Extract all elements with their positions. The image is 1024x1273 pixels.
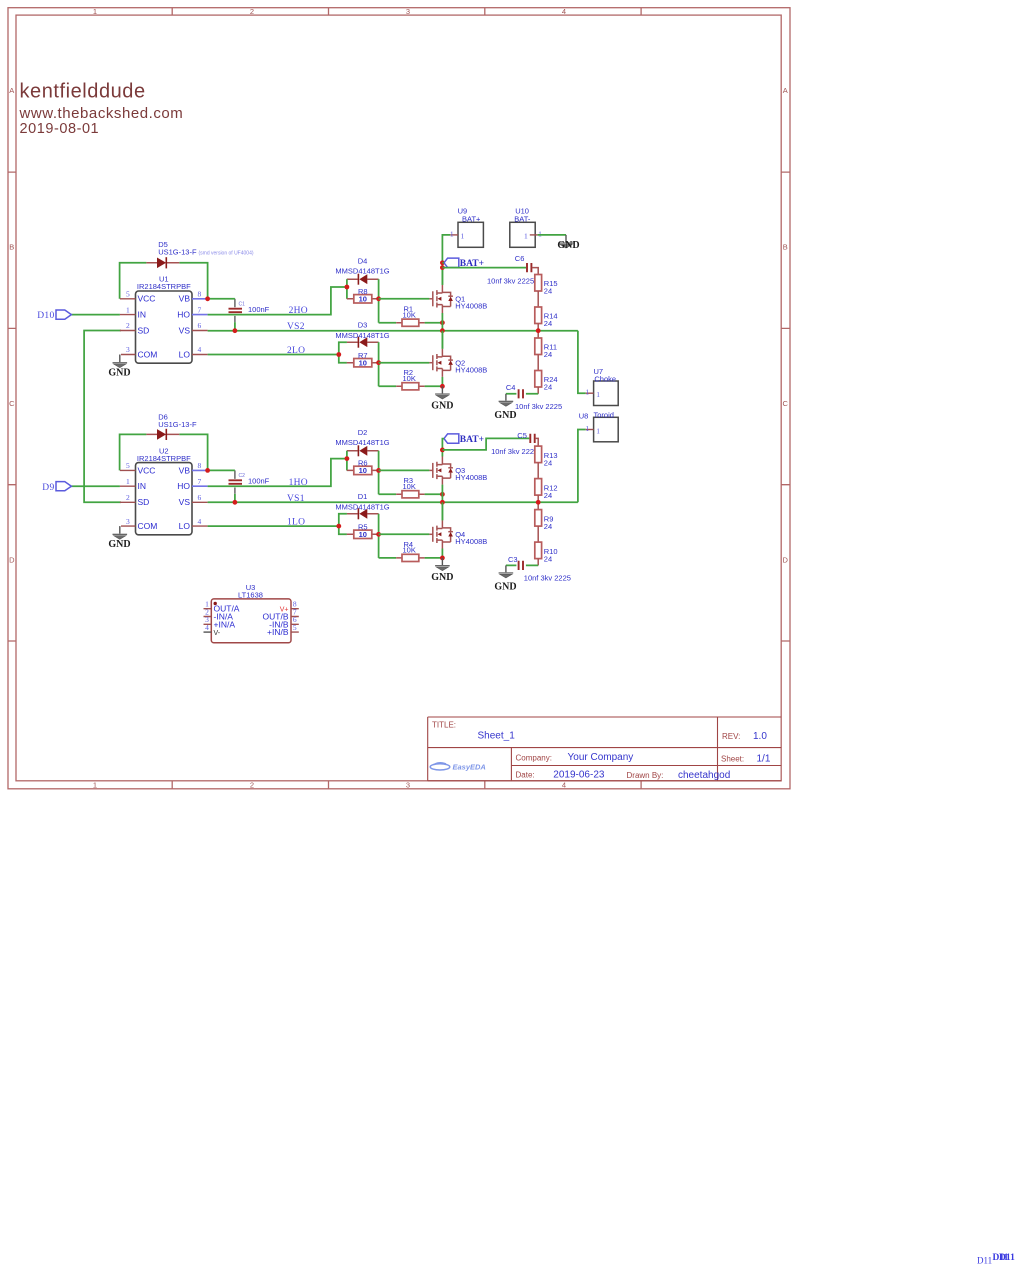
junction chain VS1 (536, 500, 541, 505)
junction R7 gate node (376, 360, 381, 365)
svg-text:10nf 3kv 2225: 10nf 3kv 2225 (487, 277, 534, 286)
net flag BAT+ lower (444, 434, 484, 445)
svg-text:Sheet:: Sheet: (721, 755, 744, 764)
svg-text:C4: C4 (506, 383, 516, 392)
svg-text:1: 1 (596, 390, 600, 399)
svg-text:MMSD4148T1G: MMSD4148T1G (335, 331, 389, 340)
svg-text:C: C (782, 399, 788, 408)
svg-text:2: 2 (250, 781, 254, 790)
svg-text:BAT+: BAT+ (462, 215, 481, 224)
svg-text:EasyEDA: EasyEDA (453, 763, 486, 772)
svg-text:HY4008B: HY4008B (455, 473, 487, 482)
wire Q2 drain (441, 331, 443, 349)
diode D4 MMSD4148T1G (335, 256, 389, 284)
resistor R7 10 (347, 351, 379, 368)
junction R2/source (440, 384, 445, 389)
wire Q3 source column (441, 485, 443, 521)
svg-text:VS1: VS1 (287, 494, 305, 504)
svg-text:MMSD4148T1G: MMSD4148T1G (335, 266, 389, 275)
capacitor C4 10nf 3kv 2225 (506, 383, 562, 411)
svg-text:LT1638: LT1638 (238, 590, 263, 599)
junction U2.VB (205, 468, 210, 473)
junction R1/source (440, 320, 445, 325)
svg-text:6: 6 (198, 321, 202, 330)
svg-text:5: 5 (126, 290, 130, 299)
svg-text:IN: IN (138, 481, 147, 491)
wire D4/R8 right link down to R1 (378, 279, 380, 323)
svg-text:US1G-13-F: US1G-13-F (158, 420, 197, 429)
svg-text:VB: VB (179, 294, 191, 304)
svg-text:D1: D1 (358, 492, 368, 501)
svg-text:+IN/B: +IN/B (267, 627, 289, 637)
wire net VS2 (208, 330, 578, 332)
EasyEDA logo (430, 763, 486, 772)
svg-text:8: 8 (198, 461, 202, 470)
resistor R9 24 (535, 510, 554, 531)
ground under Q4 (431, 558, 453, 583)
svg-text:4: 4 (562, 7, 566, 16)
wire VS1 to U8 (578, 430, 586, 503)
svg-text:GND: GND (431, 572, 453, 583)
svg-text:VCC: VCC (138, 294, 156, 304)
capacitor C3 10nf 3kv 2225 (506, 555, 571, 583)
svg-text:6: 6 (198, 493, 202, 502)
svg-text:C6: C6 (515, 254, 525, 263)
svg-text:IN: IN (138, 310, 147, 320)
svg-text:D: D (9, 556, 15, 565)
part U9 BAT+ terminal (450, 206, 484, 247)
wire D4/R8 left link (346, 279, 348, 299)
svg-text:A: A (783, 86, 788, 95)
lead R14-VS2 (537, 324, 539, 339)
svg-text:10nf 3kv 2225: 10nf 3kv 2225 (491, 447, 538, 456)
resistor R10 24 (535, 542, 558, 563)
junction R4/source (440, 556, 445, 561)
junction C2/VS1 (233, 500, 238, 505)
svg-text:1: 1 (596, 427, 600, 436)
svg-text:1: 1 (450, 229, 454, 238)
svg-text:1: 1 (538, 229, 542, 238)
wire U2 VCC bootstrap loop (120, 434, 208, 470)
svg-text:Company:: Company: (516, 753, 552, 762)
wire U1 VCC bootstrap loop (120, 263, 208, 299)
svg-text:VS: VS (179, 497, 191, 507)
wire net 1LO (208, 525, 339, 527)
ground at U1 COM (108, 355, 130, 379)
part U7 Choke (585, 367, 618, 405)
wire net 2HO (208, 287, 347, 315)
resistor R24 24 (535, 371, 558, 392)
ground under Q2 (431, 386, 453, 411)
svg-text:COM: COM (138, 521, 158, 531)
svg-text:Sheet_1: Sheet_1 (478, 731, 516, 742)
svg-text:VS: VS (179, 325, 191, 335)
lead R12-VS1 (537, 495, 539, 510)
junction 2HO at D4/R8 (345, 285, 350, 290)
wire gate Q2 (379, 362, 430, 364)
resistor R13 24 (535, 446, 558, 467)
svg-text:SD: SD (138, 497, 150, 507)
svg-text:1: 1 (585, 388, 589, 397)
svg-text:MMSD4148T1G: MMSD4148T1G (335, 503, 389, 512)
svg-text:D11: D11 (977, 1256, 992, 1266)
wire Q2 source to ground (441, 377, 443, 386)
svg-text:B: B (783, 243, 788, 252)
svg-text:2019-08-01: 2019-08-01 (20, 121, 100, 137)
sheet header text (19, 80, 184, 137)
svg-text:1: 1 (93, 781, 97, 790)
svg-text:24: 24 (544, 350, 552, 359)
wire net 2LO (208, 354, 339, 356)
capacitor C2 100nF (229, 470, 270, 502)
svg-text:(smd version of UF4004): (smd version of UF4004) (199, 250, 254, 256)
svg-text:4: 4 (198, 345, 202, 354)
junction chain VS2 (536, 328, 541, 333)
resistor R11 24 (535, 338, 557, 359)
svg-text:24: 24 (544, 319, 552, 328)
wire net 1HO (208, 459, 347, 487)
svg-text:IR2184STRPBF: IR2184STRPBF (137, 454, 191, 463)
capacitor C6 10nf 3kv 2225 (487, 254, 538, 286)
svg-text:BAT-: BAT- (514, 215, 531, 224)
svg-text:10K: 10K (403, 546, 416, 555)
wire D3/R7 right link down to R2 (378, 342, 380, 386)
svg-text:C: C (9, 399, 15, 408)
resistor R6 10 (347, 459, 379, 476)
junction R5 gate node (376, 532, 381, 537)
diode D2 MMSD4148T1G (335, 428, 389, 456)
junction BAT+ C6 branch (440, 265, 445, 270)
svg-text:5: 5 (293, 623, 297, 632)
wire D9 to U2.IN (71, 485, 120, 487)
lead R15-R14 (537, 291, 539, 307)
junction U1.VB (205, 296, 210, 301)
junction VS2 at Q column (440, 328, 445, 333)
svg-text:D3: D3 (358, 320, 368, 329)
IC U2 IR2184STRPBF (120, 446, 208, 535)
capacitor C5 10nf 3kv 2225 (491, 431, 538, 456)
svg-text:COM: COM (138, 349, 158, 359)
svg-text:D11: D11 (999, 1253, 1015, 1263)
wire BAT+ branch to C5 (442, 438, 529, 450)
svg-text:GND: GND (494, 410, 516, 421)
wire BAT+ to Q3 drain (442, 439, 444, 457)
lead R11-R24 (537, 355, 539, 371)
svg-text:Choke: Choke (594, 375, 616, 384)
svg-text:LO: LO (179, 349, 191, 359)
svg-text:3: 3 (126, 517, 130, 526)
svg-text:1/1: 1/1 (757, 754, 771, 765)
svg-text:MMSD4148T1G: MMSD4148T1G (335, 438, 389, 447)
transistor Q4 HY4008B (429, 520, 487, 548)
wire D2/R6 left link (346, 451, 348, 471)
svg-text:www.thebackshed.com: www.thebackshed.com (19, 105, 184, 122)
junction 1LO at D1/R5 (336, 524, 341, 529)
wire D10 to U1.IN (71, 314, 120, 316)
svg-text:10nf 3kv 2225: 10nf 3kv 2225 (524, 573, 571, 582)
ground at U2 COM (108, 526, 130, 550)
svg-text:C5: C5 (517, 431, 527, 440)
svg-text:1: 1 (524, 232, 528, 241)
resistor R4 10K (379, 540, 443, 562)
svg-text:GND: GND (557, 240, 579, 251)
junction C1/VS2 (233, 328, 238, 333)
part U8 Toroid (579, 410, 618, 441)
transistor Q3 HY4008B (429, 457, 487, 485)
svg-text:V-: V- (214, 630, 221, 637)
IC U1 IR2184STRPBF (120, 275, 208, 364)
svg-text:1: 1 (585, 424, 589, 433)
svg-text:IR2184STRPBF: IR2184STRPBF (137, 282, 191, 291)
resistor R15 24 (535, 275, 558, 296)
svg-text:B: B (9, 243, 14, 252)
svg-text:HO: HO (177, 310, 190, 320)
part U10 BAT- terminal (510, 206, 542, 247)
svg-text:1: 1 (461, 232, 465, 241)
svg-text:TITLE:: TITLE: (432, 720, 456, 729)
resistor R8 10 (347, 287, 379, 304)
svg-text:10: 10 (359, 466, 367, 475)
svg-text:US1G-13-F: US1G-13-F (158, 248, 197, 257)
wire net VS1 (208, 501, 578, 503)
wire VS2 to U7 (578, 331, 586, 394)
svg-text:100nF: 100nF (248, 476, 270, 485)
op-amp U3 LT1638 (204, 583, 299, 643)
svg-text:Your Company: Your Company (568, 752, 634, 763)
wire gate Q3 (379, 469, 430, 471)
svg-text:1HO: 1HO (289, 478, 308, 488)
svg-text:HY4008B: HY4008B (455, 537, 487, 546)
port D9 (42, 482, 71, 493)
wire Q1 source column (441, 313, 443, 349)
svg-text:D: D (782, 556, 788, 565)
junction R8 gate node (376, 296, 381, 301)
svg-text:VB: VB (179, 465, 191, 475)
svg-text:10K: 10K (403, 310, 416, 319)
resistor R5 10 (347, 523, 379, 540)
junction BAT+ flag (440, 260, 445, 265)
net flag BAT+ (444, 258, 484, 269)
diode D1 MMSD4148T1G (335, 492, 389, 519)
svg-text:GND: GND (108, 367, 130, 378)
svg-text:GND: GND (431, 401, 453, 412)
junction 2LO at D3/R7 (336, 352, 341, 357)
svg-text:D2: D2 (358, 428, 368, 437)
svg-text:1.0: 1.0 (753, 731, 767, 742)
svg-text:3: 3 (406, 781, 410, 790)
junction R6 gate node (376, 468, 381, 473)
wire D3/R7 left link (339, 342, 347, 363)
wire Q4 drain (441, 502, 443, 520)
svg-text:VCC: VCC (138, 465, 156, 475)
transistor Q2 HY4008B (429, 349, 487, 377)
svg-text:LO: LO (179, 521, 191, 531)
svg-text:4: 4 (205, 623, 209, 632)
svg-text:1: 1 (126, 305, 130, 314)
svg-text:BAT+: BAT+ (460, 435, 484, 445)
svg-text:Date:: Date: (516, 771, 535, 780)
svg-text:C2: C2 (239, 473, 246, 479)
svg-text:4: 4 (198, 517, 202, 526)
junction VS1 at Q column (440, 500, 445, 505)
svg-text:10: 10 (359, 530, 367, 539)
ground at C4 (494, 394, 516, 421)
wire BAT+ to C6 (442, 263, 526, 268)
port D10 (37, 310, 71, 321)
lead R13-R12 (537, 463, 539, 479)
svg-text:3: 3 (406, 7, 410, 16)
svg-text:D9: D9 (42, 483, 54, 493)
svg-text:5: 5 (126, 461, 130, 470)
svg-text:1: 1 (93, 7, 97, 16)
wire gate Q4 (379, 533, 430, 535)
junction R3/source (440, 492, 445, 497)
wire U10 to ground (538, 234, 566, 236)
svg-text:24: 24 (544, 491, 552, 500)
svg-text:10K: 10K (403, 374, 416, 383)
svg-text:Toroid: Toroid (594, 410, 614, 419)
wire U1.VB to C1 (208, 298, 235, 300)
resistor R2 10K (379, 368, 443, 390)
drawing frame outer border (8, 8, 790, 789)
diode D5 (146, 240, 253, 269)
svg-text:7: 7 (198, 305, 202, 314)
svg-text:REV:: REV: (722, 732, 740, 741)
svg-text:D10: D10 (37, 311, 54, 321)
svg-text:2HO: 2HO (289, 306, 308, 316)
resistor R12 24 (535, 479, 558, 500)
svg-text:2019-06-23: 2019-06-23 (553, 770, 605, 781)
wire D2/R6 right link down to R3 (378, 451, 380, 495)
svg-text:7: 7 (198, 477, 202, 486)
svg-text:24: 24 (544, 522, 552, 531)
svg-text:cheetahgod: cheetahgod (678, 770, 730, 781)
svg-text:8: 8 (198, 290, 202, 299)
svg-text:HO: HO (177, 481, 190, 491)
wire D1/R5 left link (339, 514, 347, 535)
svg-text:C3: C3 (508, 555, 518, 564)
svg-text:A: A (9, 86, 14, 95)
capacitor C1 100nF (229, 299, 270, 331)
svg-text:4: 4 (562, 781, 566, 790)
title block (428, 717, 782, 781)
svg-text:1: 1 (126, 477, 130, 486)
svg-text:HY4008B: HY4008B (455, 302, 487, 311)
svg-text:kentfielddude: kentfielddude (20, 80, 146, 102)
wire Q4 source (441, 549, 443, 558)
wire Q1 drain to BAT+ (441, 268, 443, 285)
svg-text:10K: 10K (403, 482, 416, 491)
svg-text:C1: C1 (239, 302, 246, 308)
ground near U10 (557, 235, 579, 251)
svg-text:24: 24 (544, 554, 552, 563)
svg-text:1LO: 1LO (287, 518, 305, 528)
svg-text:GND: GND (108, 539, 130, 550)
svg-text:VS2: VS2 (287, 322, 305, 332)
svg-text:24: 24 (544, 458, 552, 467)
wire U9 to BAT+ rail (442, 235, 450, 285)
svg-text:24: 24 (544, 383, 552, 392)
diode D3 MMSD4148T1G (335, 320, 389, 347)
svg-text:U8: U8 (579, 412, 589, 421)
svg-text:GND: GND (494, 582, 516, 593)
svg-text:D4: D4 (358, 256, 368, 265)
svg-text:10: 10 (359, 359, 367, 368)
transistor Q1 HY4008B (429, 285, 487, 313)
resistor R1 10K (379, 305, 443, 327)
svg-text:10: 10 (359, 295, 367, 304)
svg-text:3: 3 (126, 345, 130, 354)
svg-text:2: 2 (126, 493, 130, 502)
ground at C3 (494, 565, 516, 592)
lead R9-R10 (537, 526, 539, 542)
svg-text:2: 2 (126, 321, 130, 330)
svg-text:2LO: 2LO (287, 346, 305, 356)
svg-text:100nF: 100nF (248, 305, 270, 314)
junction 1HO at D2/R6 (345, 456, 350, 461)
junction C5 branch (440, 448, 445, 453)
svg-text:SD: SD (138, 325, 150, 335)
svg-text:10nf 3kv 2225: 10nf 3kv 2225 (515, 402, 562, 411)
diode D6 (146, 412, 197, 440)
wire U2.VB to C2 (208, 469, 235, 471)
lead R24-C4 (537, 387, 539, 394)
svg-text:+IN/A: +IN/A (214, 619, 236, 629)
resistor R3 10K (379, 476, 443, 498)
svg-text:24: 24 (544, 287, 552, 296)
wire U1.SD to U2.SD (84, 331, 121, 503)
wire D1/R5 right link down to R4 (378, 514, 380, 558)
svg-text:Drawn By:: Drawn By: (627, 771, 664, 780)
resistor R14 24 (535, 307, 558, 328)
svg-text:2: 2 (250, 7, 254, 16)
svg-text:HY4008B: HY4008B (455, 365, 487, 374)
wire gate Q1 (379, 298, 430, 300)
lead R10-C3 (537, 559, 539, 566)
